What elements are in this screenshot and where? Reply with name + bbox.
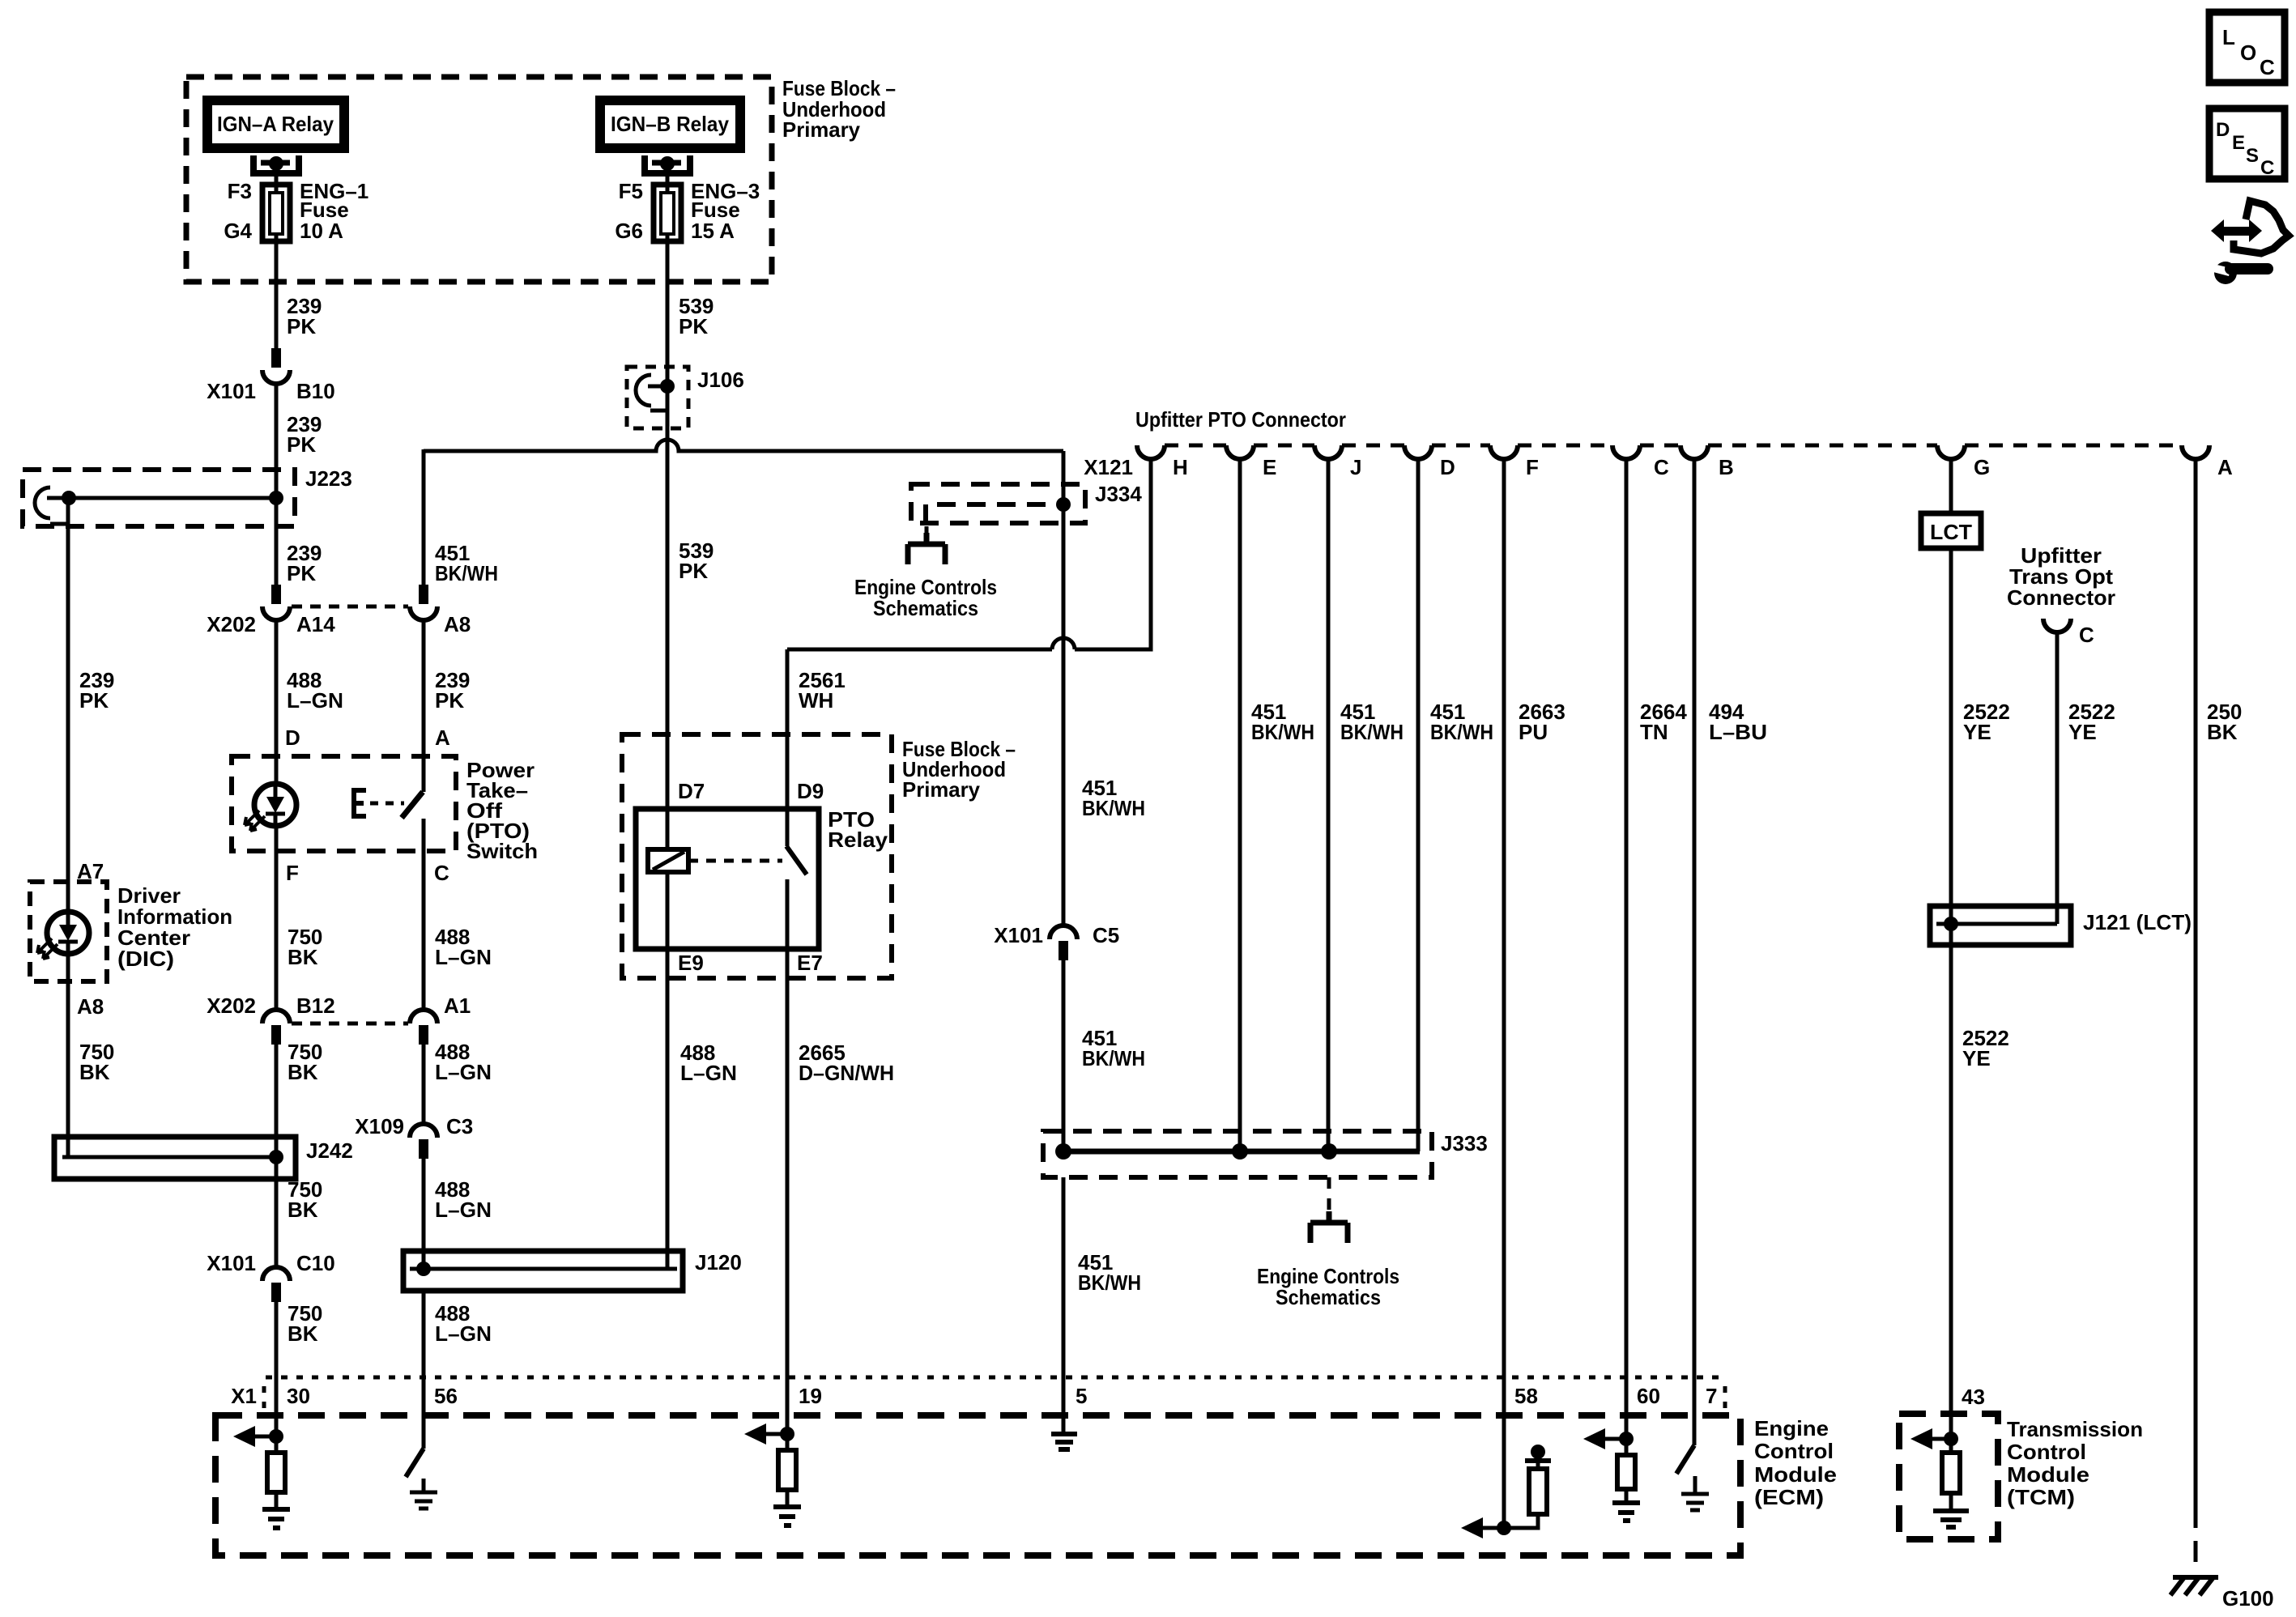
svg-text:(ECM): (ECM) bbox=[1754, 1485, 1824, 1509]
svg-text:D: D bbox=[2216, 119, 2230, 141]
TCM pin 43 ground bbox=[1933, 1511, 1969, 1527]
connector X202 A14 (tick + cup) bbox=[271, 585, 281, 604]
svg-text:BK/WH: BK/WH bbox=[1082, 796, 1145, 820]
connector cup pin E bbox=[1226, 445, 1254, 459]
svg-text:F: F bbox=[1526, 455, 1539, 479]
ECM pin 60 internal arrow bbox=[1595, 1437, 1626, 1441]
svg-text:BK/WH: BK/WH bbox=[1430, 720, 1493, 744]
wire 488 L-GN switch C to X202 A1 bbox=[422, 819, 426, 1010]
svg-text:BK: BK bbox=[288, 1198, 318, 1222]
svg-text:G: G bbox=[1974, 455, 1990, 479]
svg-text:15 A: 15 A bbox=[691, 219, 735, 243]
J223 internal wire bbox=[47, 496, 276, 500]
wire 750 BK B12 to J242 bbox=[275, 1045, 279, 1137]
splice J242 box bbox=[54, 1137, 296, 1179]
svg-text:YE: YE bbox=[2068, 720, 2097, 744]
ECM pin 19 internal resistor bbox=[786, 1434, 790, 1450]
svg-text:56: 56 bbox=[434, 1384, 458, 1408]
TCM pin 43 internal arrow bbox=[1921, 1437, 1951, 1441]
connector cup pin B bbox=[1680, 445, 1708, 459]
svg-text:X202: X202 bbox=[207, 612, 256, 636]
svg-text:Transmission: Transmission bbox=[2007, 1417, 2143, 1441]
svg-text:X101: X101 bbox=[207, 379, 256, 403]
wire 750 BK DIC A8 to J242 bbox=[66, 953, 70, 1157]
svg-text:O: O bbox=[2240, 40, 2256, 65]
junction dot J223 left bbox=[62, 491, 76, 505]
connector cup pin J bbox=[1314, 445, 1342, 459]
svg-text:C: C bbox=[2260, 157, 2274, 179]
svg-text:IGN–A Relay: IGN–A Relay bbox=[217, 112, 334, 136]
TCM pin 43 internal resistor bbox=[1949, 1439, 1953, 1453]
svg-text:L–BU: L–BU bbox=[1709, 720, 1767, 744]
junction dot J333 wire J bbox=[1321, 1143, 1337, 1160]
svg-text:D–GN/WH: D–GN/WH bbox=[799, 1061, 894, 1085]
ECM pin 5 ground bbox=[1051, 1434, 1077, 1449]
svg-text:C: C bbox=[2260, 55, 2275, 79]
PTO switch blade bbox=[402, 792, 423, 818]
off-page bracket (engine controls, top) bbox=[908, 533, 945, 564]
splice J121 (LCT) box bbox=[1930, 906, 2071, 945]
upfitter trans opt connector cup pin C bbox=[2043, 619, 2071, 632]
ECM pin 30 internal: junction dot bbox=[269, 1429, 283, 1444]
svg-text:J223: J223 bbox=[305, 466, 352, 491]
svg-text:LCT: LCT bbox=[1930, 520, 1972, 544]
junction dot J106 bbox=[660, 379, 675, 394]
ECM pin 56 ground bbox=[422, 1479, 426, 1492]
diagnostic icon wrench bbox=[2214, 262, 2237, 284]
junction dot J242 bbox=[269, 1150, 283, 1164]
wire 488 L-GN C3 to J120 bbox=[422, 1159, 426, 1269]
diagnostic icon connector outline bbox=[2234, 201, 2289, 253]
PTO Relay box bbox=[636, 809, 819, 949]
J120 internal wire bbox=[410, 1267, 677, 1271]
connector cup pin H bbox=[1137, 445, 1165, 459]
svg-text:BK: BK bbox=[79, 1060, 110, 1084]
svg-text:G4: G4 bbox=[224, 219, 252, 243]
svg-text:Primary: Primary bbox=[782, 117, 861, 142]
wire 239 PK fuse G4 to X101 B10 bbox=[275, 241, 279, 349]
ECM pin 30 ground bbox=[262, 1509, 290, 1528]
connector X202 A8 (tick + cup) bbox=[419, 585, 428, 604]
ECM X1 connector dotted line bbox=[266, 1376, 1725, 1380]
J223 loop symbol bbox=[35, 487, 50, 518]
junction dot J334 bbox=[1056, 497, 1071, 512]
svg-text:F5: F5 bbox=[619, 179, 643, 203]
ECM pin 19 internal: junction dot bbox=[780, 1427, 794, 1441]
svg-text:Engine: Engine bbox=[1754, 1416, 1829, 1440]
svg-text:F: F bbox=[286, 861, 299, 885]
svg-text:D9: D9 bbox=[797, 779, 824, 803]
svg-text:BK: BK bbox=[288, 1321, 318, 1346]
wire 750 BK lamp F to X202 B12 bbox=[275, 823, 279, 1010]
svg-text:TN: TN bbox=[1640, 720, 1668, 744]
wire 539 PK fuse G6 to J106 bbox=[666, 241, 670, 451]
svg-text:J242: J242 bbox=[306, 1138, 353, 1163]
svg-text:L–GN: L–GN bbox=[435, 945, 492, 969]
svg-text:BK/WH: BK/WH bbox=[435, 561, 498, 585]
svg-text:B: B bbox=[1719, 455, 1734, 479]
Power Take-Off (PTO) Switch dashed box bbox=[232, 756, 456, 851]
svg-text:19: 19 bbox=[799, 1384, 822, 1408]
svg-text:PK: PK bbox=[287, 314, 316, 338]
svg-text:B10: B10 bbox=[296, 379, 335, 403]
wire 488 L-GN A1 to X109 C3 bbox=[422, 1045, 426, 1124]
svg-text:PU: PU bbox=[1519, 720, 1548, 744]
svg-text:7: 7 bbox=[1706, 1384, 1717, 1408]
svg-text:X202: X202 bbox=[207, 994, 256, 1018]
wire 239 PK B10 to J223 bbox=[275, 383, 279, 585]
splice J333 dashed box bbox=[1043, 1131, 1432, 1177]
svg-text:H: H bbox=[1173, 455, 1188, 479]
svg-text:Control: Control bbox=[1754, 1439, 1834, 1463]
connector cup pin G bbox=[1937, 445, 1965, 459]
junction dot J333 wire E bbox=[1232, 1143, 1248, 1160]
svg-text:YE: YE bbox=[1962, 1046, 1991, 1070]
svg-text:A: A bbox=[435, 726, 450, 750]
svg-text:Upfitter PTO Connector: Upfitter PTO Connector bbox=[1135, 407, 1346, 432]
wire 239 PK A8 to PTO switch A bbox=[422, 619, 426, 792]
svg-text:A8: A8 bbox=[444, 612, 471, 636]
junction dot J121 bbox=[1944, 917, 1958, 931]
svg-text:BK/WH: BK/WH bbox=[1078, 1270, 1141, 1295]
relay fixed contact to E7 bbox=[786, 879, 790, 970]
svg-text:WH: WH bbox=[799, 688, 833, 713]
svg-text:J333: J333 bbox=[1441, 1131, 1488, 1155]
fuse F5 ENG-3 15A bbox=[666, 185, 670, 241]
svg-text:L–GN: L–GN bbox=[435, 1321, 492, 1346]
off-page bracket (engine controls, bottom) bbox=[1310, 1211, 1348, 1243]
connector X202 B12 (cup + tick) bbox=[262, 1010, 290, 1023]
svg-text:PK: PK bbox=[79, 688, 109, 713]
svg-text:BK: BK bbox=[2207, 720, 2238, 744]
svg-text:L–GN: L–GN bbox=[287, 688, 343, 713]
svg-text:Connector: Connector bbox=[2007, 585, 2115, 610]
svg-text:E7: E7 bbox=[797, 951, 823, 975]
svg-text:Module: Module bbox=[1754, 1462, 1837, 1487]
relay K2 IGN-B Relay label box bbox=[595, 96, 745, 153]
Driver Information Center dashed box bbox=[30, 882, 107, 981]
Engine Control Module dashed box bbox=[215, 1415, 1740, 1555]
DESC icon box bbox=[2209, 109, 2285, 179]
ECM pin 58 internal arrow bbox=[1472, 1526, 1504, 1530]
svg-text:J334: J334 bbox=[1095, 482, 1142, 506]
J242 internal wire bbox=[62, 1155, 276, 1160]
ECM pin 58 internal: junction dot bbox=[1497, 1521, 1511, 1535]
svg-text:D: D bbox=[285, 726, 300, 750]
wire 750 BK through J242 to X101 C10 bbox=[275, 1137, 279, 1267]
connector X101 C10 (cup + tick) bbox=[262, 1267, 290, 1281]
ECM pin 7 ground bbox=[1693, 1476, 1698, 1494]
LCT option box bbox=[1921, 513, 1981, 548]
svg-text:Schematics: Schematics bbox=[1276, 1285, 1381, 1309]
svg-text:YE: YE bbox=[1963, 720, 1991, 744]
svg-text:30: 30 bbox=[287, 1384, 310, 1408]
svg-text:D7: D7 bbox=[678, 779, 705, 803]
wire relay to fuse F3 bbox=[275, 164, 279, 188]
wire 451 BK/WH C5 to J333 bbox=[1062, 960, 1066, 1151]
connector cup pin A bbox=[2182, 445, 2209, 459]
svg-text:(TCM): (TCM) bbox=[2007, 1485, 2075, 1509]
svg-text:A8: A8 bbox=[77, 994, 104, 1019]
wire 250 BK pin A down bbox=[2194, 459, 2198, 1507]
wire 451 BK/WH J333 to ECM pin 5 bbox=[1062, 1177, 1066, 1432]
wire 488 L-GN relay E9 to J120 bbox=[666, 872, 670, 1269]
wire 2664 TN pin C to ECM pin 60 bbox=[1625, 459, 1629, 1439]
relay contact terminal of IGN-B relay bbox=[645, 155, 690, 173]
wire 2522 YE J121 to TCM pin 43 bbox=[1949, 906, 1953, 1439]
svg-text:E: E bbox=[2232, 132, 2245, 154]
svg-text:BK: BK bbox=[288, 945, 318, 969]
svg-text:F3: F3 bbox=[228, 179, 252, 203]
svg-text:Relay: Relay bbox=[828, 828, 888, 852]
ECM pin 19 ground bbox=[773, 1507, 801, 1526]
svg-text:E: E bbox=[1263, 455, 1276, 479]
TCM pin 43 internal: junction dot bbox=[1944, 1432, 1958, 1446]
svg-text:(DIC): (DIC) bbox=[117, 947, 174, 971]
svg-text:S: S bbox=[2246, 145, 2259, 167]
svg-text:C: C bbox=[434, 861, 449, 885]
dashed stub J334 to engine controls bracket bbox=[925, 526, 929, 543]
svg-text:Switch: Switch bbox=[466, 839, 538, 863]
svg-text:C5: C5 bbox=[1093, 923, 1119, 947]
wire 2665 D-GN/WH relay E7 to ECM pin 19 bbox=[786, 970, 790, 1434]
svg-text:5: 5 bbox=[1076, 1384, 1087, 1408]
svg-text:X121: X121 bbox=[1084, 455, 1133, 479]
connector cup pin D bbox=[1404, 445, 1432, 459]
splice J334 outer dashed box bbox=[911, 484, 1085, 523]
svg-text:G100: G100 bbox=[2222, 1586, 2274, 1611]
Transmission Control Module dashed box bbox=[1899, 1414, 1998, 1539]
wire 451 BK/WH pin E to J333 bbox=[1238, 459, 1242, 1151]
wire 451 BK/WH pin D to J333 bbox=[1416, 459, 1421, 1151]
wire 239 PK J223 down to DIC A7 bbox=[66, 498, 70, 913]
connector X101 C5 (cup + tick) bbox=[1050, 926, 1077, 939]
diagnostic icon arrow bbox=[2211, 219, 2224, 242]
relay contact terminal of IGN-A relay bbox=[253, 155, 299, 173]
wire 488 L-GN J120 to ECM pin 56 bbox=[422, 1291, 426, 1449]
wire 2522 YE trans opt C to J121 bbox=[2055, 632, 2060, 924]
svg-text:PK: PK bbox=[679, 559, 708, 583]
PTO relay switch blade bbox=[786, 846, 807, 874]
ECM pin 60 ground bbox=[1612, 1503, 1640, 1521]
svg-text:A: A bbox=[2217, 455, 2233, 479]
svg-text:BK/WH: BK/WH bbox=[1251, 720, 1314, 744]
junction dot J223 on 239 PK bbox=[269, 491, 283, 505]
J333 internal bus wire bbox=[1063, 1149, 1420, 1155]
fuse block underhood primary (PTO relay) dashed box bbox=[622, 734, 892, 978]
svg-text:IGN–B Relay: IGN–B Relay bbox=[611, 112, 729, 136]
dashed wire 250 BK to G100 bbox=[2194, 1507, 2198, 1574]
junction dot J333 on 451 from C5 bbox=[1055, 1143, 1071, 1160]
svg-text:J120: J120 bbox=[695, 1250, 742, 1274]
PTO indicator LED bbox=[254, 784, 296, 826]
splice J120 box bbox=[403, 1251, 683, 1291]
fuse F3 ENG-1 10A bbox=[275, 185, 279, 241]
svg-text:60: 60 bbox=[1637, 1384, 1660, 1408]
svg-text:Control: Control bbox=[2007, 1440, 2086, 1464]
svg-text:L: L bbox=[2222, 25, 2235, 49]
ECM pin 58 internal pull-up resistor bbox=[1504, 1514, 1538, 1528]
LOC icon box bbox=[2209, 12, 2285, 83]
svg-text:D: D bbox=[1440, 455, 1455, 479]
relay K1 IGN-A Relay label box bbox=[202, 96, 349, 153]
svg-text:L–GN: L–GN bbox=[680, 1061, 737, 1085]
svg-text:X101: X101 bbox=[207, 1251, 256, 1275]
connector X101 B10 (tick + cup) bbox=[271, 348, 281, 368]
ECM pin 19 internal arrow bbox=[756, 1432, 787, 1436]
svg-text:PK: PK bbox=[435, 688, 464, 713]
svg-text:Module: Module bbox=[2007, 1462, 2089, 1487]
wire 451 BK/WH bus A8 corner to J334 corner with hop over 539 PK bbox=[424, 440, 1063, 451]
DIC indicator LED bbox=[47, 912, 89, 954]
junction dot J120 bbox=[416, 1262, 431, 1276]
splice J223 dashed box bbox=[23, 470, 295, 526]
dashed tie X202 B12 to A1 bbox=[292, 1022, 408, 1026]
dashed tie X202 A14 to A8 bbox=[292, 605, 408, 609]
wire 2561 WH pin H down and across with hop over 451 bbox=[787, 459, 1151, 649]
hop arc over 451 wire bbox=[1052, 638, 1075, 649]
wire 539 PK J106 to PTO relay D7 bbox=[666, 451, 670, 849]
svg-text:C: C bbox=[1654, 455, 1669, 479]
svg-text:BK/WH: BK/WH bbox=[1082, 1046, 1145, 1070]
svg-text:BK: BK bbox=[288, 1060, 318, 1084]
svg-text:A1: A1 bbox=[444, 994, 471, 1018]
svg-text:X1: X1 bbox=[231, 1384, 257, 1408]
dashed stub J333 to engine controls bracket bbox=[1327, 1177, 1331, 1212]
svg-text:Primary: Primary bbox=[902, 777, 981, 802]
svg-text:Schematics: Schematics bbox=[873, 596, 978, 620]
ECM pin 7 internal switch blade bbox=[1676, 1445, 1694, 1474]
svg-text:PK: PK bbox=[287, 561, 316, 585]
wire 2522 YE pin G to LCT box bbox=[1949, 459, 1953, 906]
wire 494 L-BU pin B to ECM pin 7 bbox=[1693, 459, 1697, 1445]
wire 451 BK/WH bus corner down to X202 A8 bbox=[422, 449, 426, 585]
svg-text:PK: PK bbox=[679, 314, 708, 338]
J106 loop symbol bbox=[636, 375, 651, 406]
wire 488 L-GN A14 to PTO lamp D bbox=[275, 619, 279, 784]
svg-text:J121 (LCT): J121 (LCT) bbox=[2083, 910, 2192, 934]
svg-text:C10: C10 bbox=[296, 1251, 335, 1275]
ECM pin 60 internal resistor bbox=[1625, 1439, 1629, 1455]
svg-text:A14: A14 bbox=[296, 612, 335, 636]
PTO relay coil bbox=[648, 849, 688, 872]
svg-text:E9: E9 bbox=[678, 951, 704, 975]
svg-text:43: 43 bbox=[1962, 1385, 1985, 1409]
PTO switch actuator E bracket bbox=[354, 790, 366, 816]
svg-text:C3: C3 bbox=[446, 1114, 473, 1138]
relay actuator dashed link bbox=[688, 859, 782, 863]
svg-text:X101: X101 bbox=[994, 923, 1043, 947]
splice J106 dashed box bbox=[627, 367, 688, 428]
connector cup pin C bbox=[1612, 445, 1640, 459]
svg-text:PK: PK bbox=[287, 432, 316, 457]
svg-text:L–GN: L–GN bbox=[435, 1060, 492, 1084]
ECM pin 60 internal: junction dot bbox=[1619, 1432, 1634, 1446]
svg-text:G6: G6 bbox=[615, 219, 643, 243]
ECM pin 30 internal arrow bbox=[245, 1435, 276, 1439]
connector X109 C3 (cup + tick) bbox=[410, 1124, 437, 1138]
PTO switch actuator dashed link bbox=[370, 802, 404, 806]
svg-text:X109: X109 bbox=[355, 1114, 404, 1138]
svg-text:BK/WH: BK/WH bbox=[1340, 720, 1404, 744]
svg-text:10 A: 10 A bbox=[300, 219, 343, 243]
J121 internal wire bbox=[1936, 922, 2057, 926]
ECM pin 56 internal switch blade bbox=[406, 1449, 424, 1477]
svg-text:J106: J106 bbox=[697, 368, 744, 392]
svg-text:L–GN: L–GN bbox=[435, 1198, 492, 1222]
svg-text:C: C bbox=[2079, 623, 2094, 647]
connector cup pin F bbox=[1490, 445, 1518, 459]
splice J334 inner dashed line bbox=[926, 504, 1062, 523]
svg-text:B12: B12 bbox=[296, 994, 335, 1018]
upfitter PTO connector dashed face line bbox=[1165, 444, 2182, 448]
wire relay to fuse F5 bbox=[666, 164, 670, 188]
wire 750 BK C10 to ECM pin 30 bbox=[275, 1302, 279, 1436]
wire 2561 WH from H down to relay D9 bbox=[786, 649, 790, 846]
svg-text:J: J bbox=[1350, 455, 1361, 479]
fuse block underhood primary (top) dashed box bbox=[186, 77, 772, 282]
svg-text:58: 58 bbox=[1514, 1384, 1538, 1408]
wire 451 BK/WH corner down into J334 bbox=[1062, 451, 1066, 926]
connector X202 A1 (cup + tick) bbox=[410, 1010, 437, 1023]
wire 451 BK/WH pin J to J333 bbox=[1327, 459, 1331, 1151]
ground G100 symbol bbox=[2170, 1577, 2218, 1595]
ECM pin 30 internal resistor bbox=[275, 1436, 279, 1453]
wire 2663 PU pin F to ECM pin 58 bbox=[1502, 459, 1506, 1528]
